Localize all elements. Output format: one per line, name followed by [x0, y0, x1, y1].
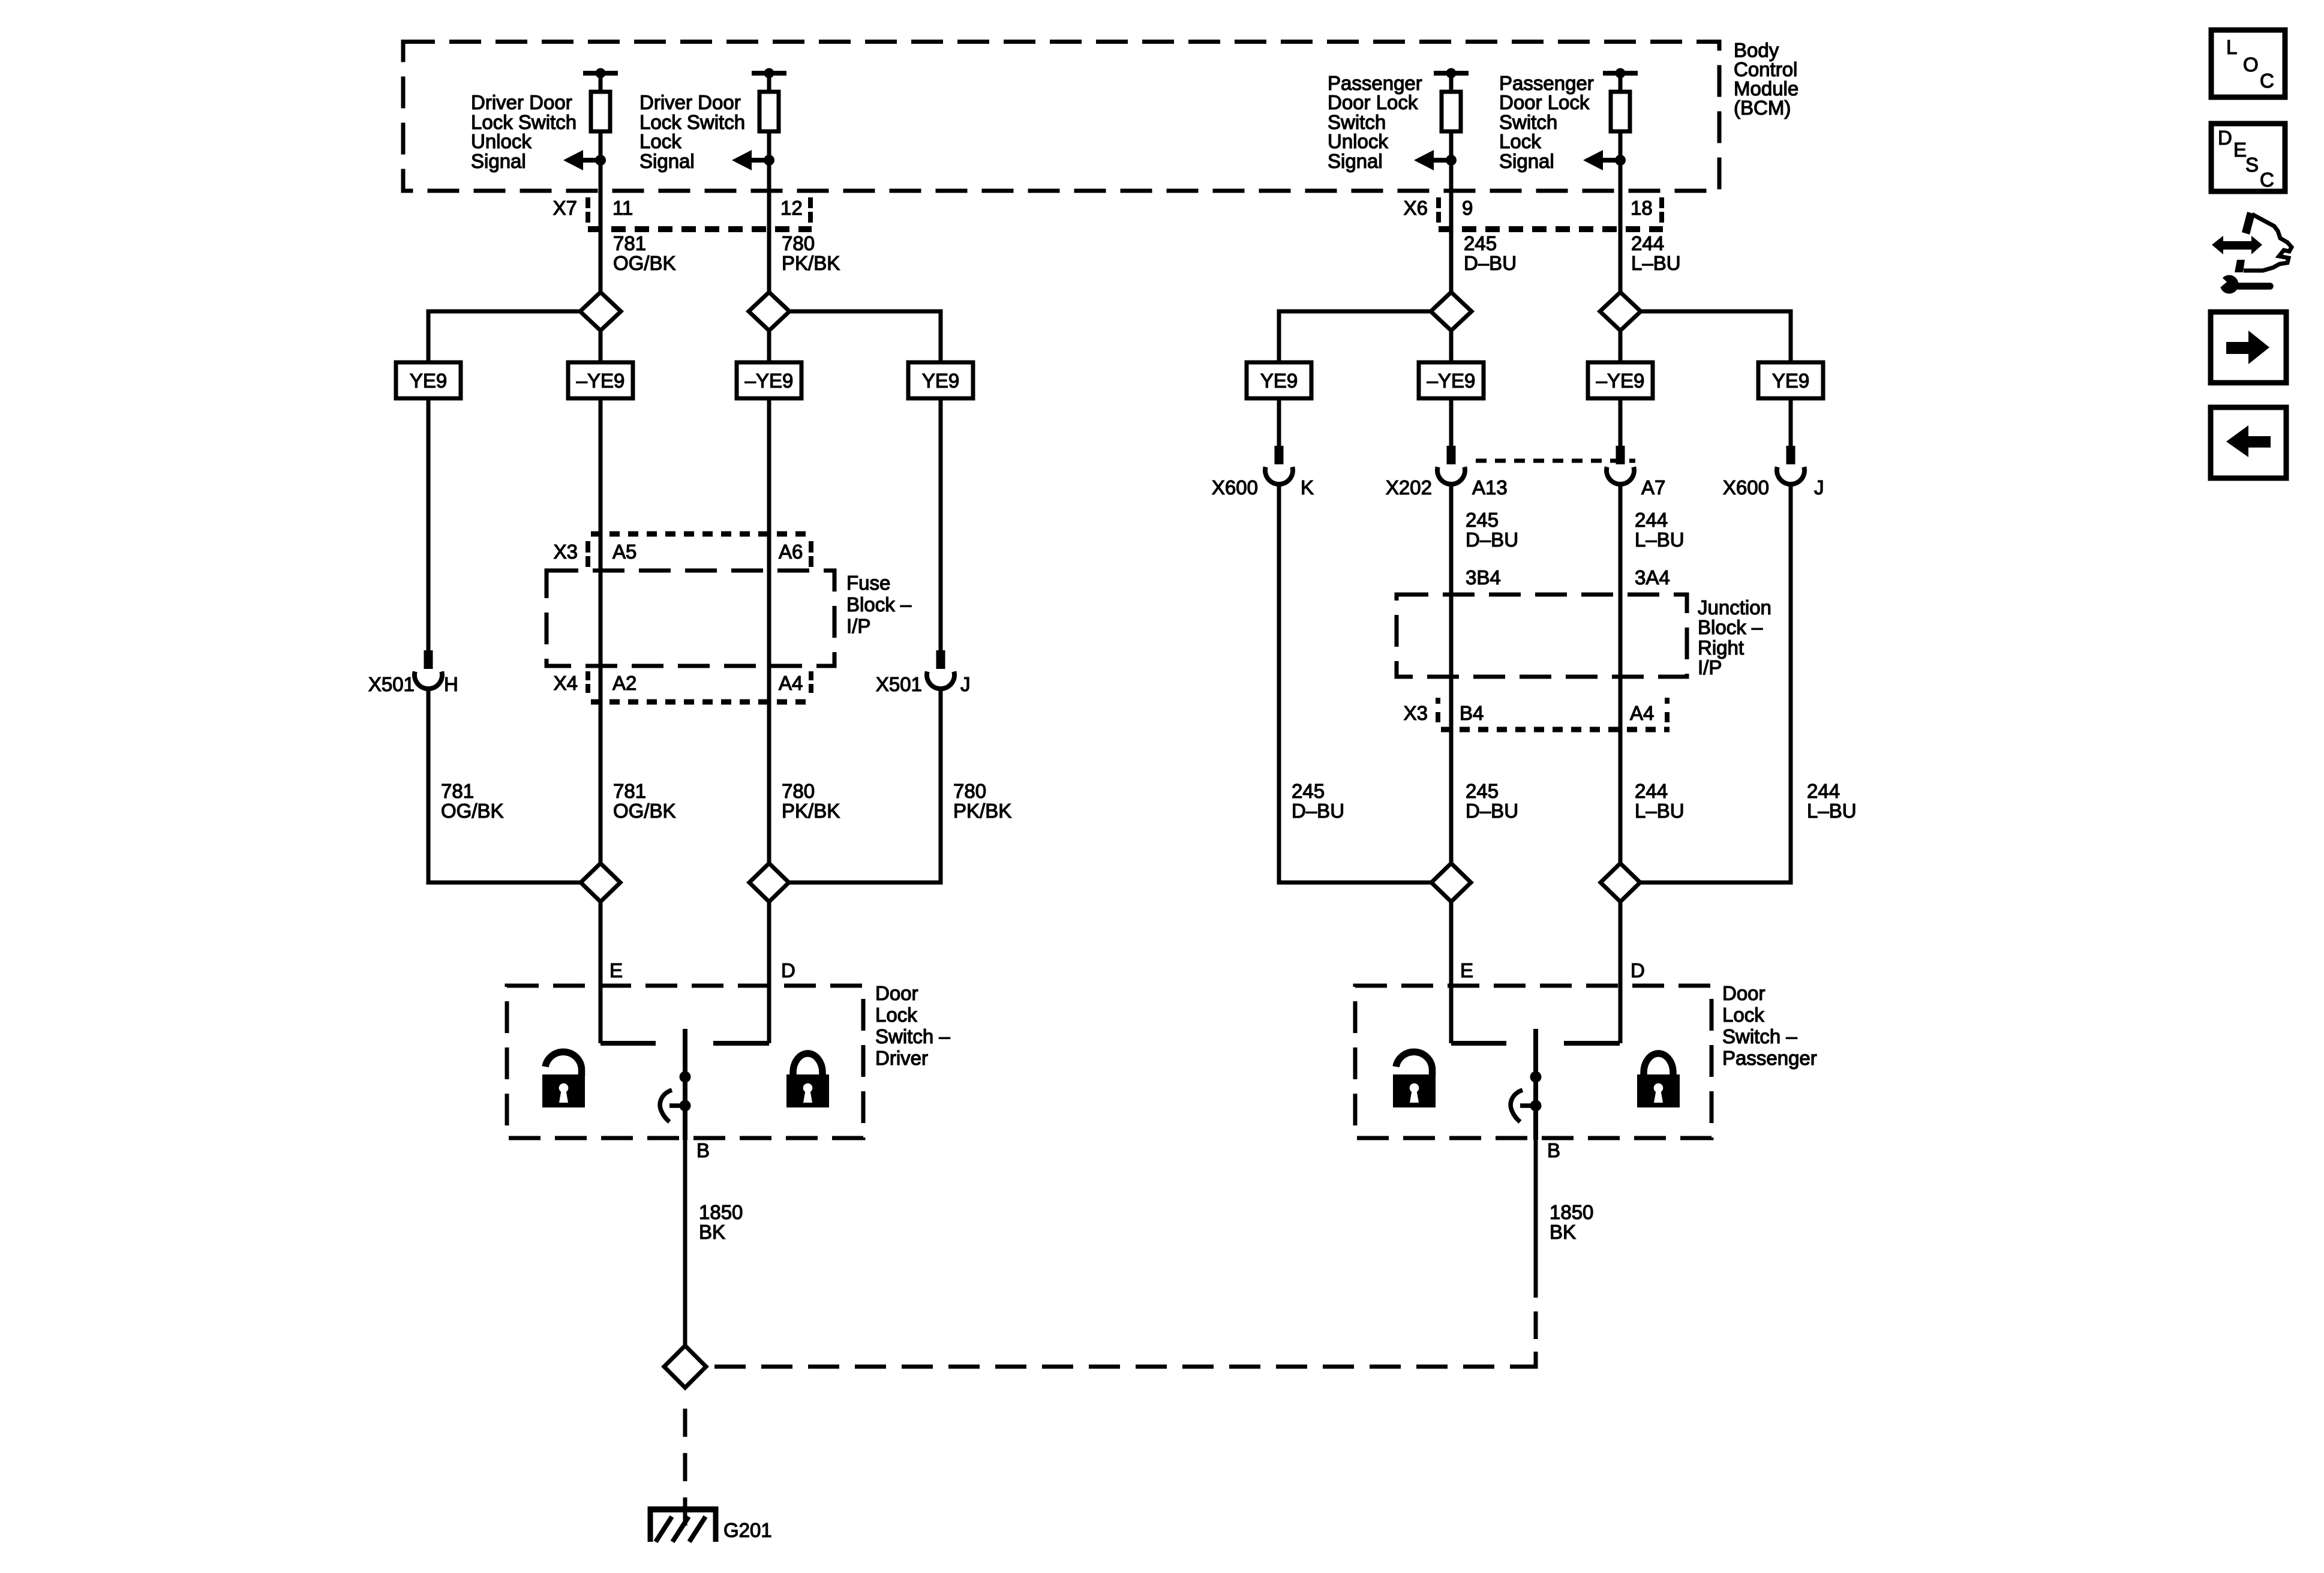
- svg-text:Driver Door: Driver Door: [471, 91, 572, 113]
- wire label 1850 BK (passenger): [1550, 1201, 1593, 1243]
- pin label B driver: [696, 1139, 710, 1161]
- svg-text:E: E: [609, 959, 623, 981]
- splice S8 (244): [1601, 863, 1640, 902]
- signal arrow driver unlock: [563, 150, 606, 170]
- svg-text:781: 781: [441, 780, 474, 802]
- unlock icon (open padlock) Driver: [542, 1052, 585, 1107]
- wire label 781 OG/BK (pin 11): [613, 232, 676, 274]
- wire S3 down: [1449, 331, 1454, 362]
- svg-text:J: J: [960, 673, 971, 695]
- svg-text:3B4: 3B4: [1466, 566, 1501, 589]
- wire label 1850 BK (driver): [699, 1201, 743, 1243]
- svg-text:Door: Door: [1722, 982, 1765, 1004]
- lock icon (closed padlock) Passenger: [1637, 1053, 1680, 1107]
- svg-text:245: 245: [1292, 780, 1325, 802]
- wire label 780 PK/BK (pin 12): [782, 232, 840, 274]
- svg-text:Right: Right: [1698, 637, 1744, 659]
- Door Lock Switch - Passenger dashed box: [1355, 986, 1712, 1138]
- svg-text:1850: 1850: [1550, 1201, 1593, 1223]
- wire S8 (244) down to switch: [1619, 902, 1623, 1043]
- dashed corner passenger 1850: [1520, 1352, 1536, 1367]
- ground label G201: [723, 1519, 772, 1541]
- harness box -YE9 at x=2701: [1588, 362, 1653, 398]
- svg-text:L: L: [2226, 36, 2237, 58]
- dotted link X202: [1476, 459, 1635, 463]
- svg-text:780: 780: [953, 780, 986, 802]
- svg-text:X501: X501: [368, 673, 415, 695]
- wire B passenger dashed segment: [1534, 1311, 1538, 1339]
- icon harness repair (wrench): [2209, 269, 2270, 294]
- svg-text:(BCM): (BCM): [1734, 97, 1791, 119]
- svg-text:781: 781: [613, 780, 646, 802]
- svg-text:X600: X600: [1212, 476, 1258, 499]
- svg-text:245: 245: [1466, 509, 1499, 531]
- svg-text:YE9: YE9: [1772, 370, 1809, 392]
- wire branch S1 to left: [428, 311, 580, 362]
- svg-text:3A4: 3A4: [1635, 566, 1670, 589]
- svg-text:X202: X202: [1386, 476, 1432, 499]
- splice S3 (245): [1431, 292, 1472, 331]
- wire dL below X501 H: [428, 689, 580, 882]
- wire S4 down: [1619, 331, 1623, 362]
- svg-text:OG/BK: OG/BK: [441, 800, 504, 822]
- svg-text:K: K: [1301, 476, 1314, 499]
- svg-text:780: 780: [782, 232, 815, 254]
- wire S5 (781) down to switch: [599, 902, 603, 1043]
- wire S2 down: [767, 331, 771, 362]
- svg-text:Lock: Lock: [639, 130, 681, 152]
- icon harness repair (double arrow): [2212, 236, 2262, 254]
- svg-text:245: 245: [1464, 232, 1497, 254]
- connector X7: [553, 197, 812, 229]
- splice S1 (781): [580, 292, 621, 331]
- wire label 245 D-BU (A13): [1466, 509, 1518, 551]
- switch contact D Driver: [713, 1041, 769, 1046]
- svg-text:9: 9: [1462, 197, 1473, 219]
- svg-text:Unlock: Unlock: [471, 130, 532, 152]
- splice S5 (781): [581, 863, 620, 902]
- wire driver lock output: [767, 131, 771, 293]
- harness box YE9 at x=1568: [908, 362, 973, 398]
- harness box -YE9 at x=1282: [737, 362, 801, 398]
- svg-text:Driver: Driver: [875, 1047, 928, 1069]
- signal arrow passenger lock: [1583, 150, 1626, 170]
- wire branch S3 to left: [1279, 311, 1431, 362]
- svg-text:1850: 1850: [699, 1201, 743, 1223]
- BCM internal node bar passenger lock: [1603, 68, 1638, 79]
- connector X202 pin A7: [1607, 446, 1665, 499]
- connector X600 pin J: [1723, 446, 1824, 499]
- signal arrow driver lock: [732, 150, 774, 170]
- wire pL YE9 to X600 K: [1277, 398, 1281, 446]
- svg-text:11: 11: [612, 197, 633, 219]
- wire S6 (780) down to switch: [767, 902, 771, 1043]
- Door Lock Switch Passenger label: [1722, 982, 1817, 1069]
- switch contact E Passenger: [1451, 1041, 1506, 1046]
- svg-text:–YE9: –YE9: [1596, 370, 1645, 392]
- svg-text:L–BU: L–BU: [1631, 252, 1681, 274]
- wire passenger unlock output: [1449, 131, 1454, 293]
- wire p2 YE9 to X202 A7: [1619, 398, 1623, 446]
- svg-text:J: J: [1814, 476, 1824, 499]
- svg-text:A7: A7: [1641, 476, 1665, 499]
- svg-text:A4: A4: [779, 672, 803, 694]
- label Driver Door Lock Switch Lock Signal: [639, 91, 745, 172]
- Body Control Module (BCM) dashed box: [403, 42, 1719, 191]
- wire p1 below X202 A13: [1449, 484, 1454, 863]
- switch common pole Driver: [680, 1029, 691, 1140]
- splice S7 (245): [1431, 863, 1471, 902]
- svg-text:–YE9: –YE9: [1427, 370, 1476, 392]
- wire dR YE9 to X501 J: [939, 398, 943, 650]
- pin label E driver: [609, 959, 623, 981]
- wire label 244 L-BU (pin 18): [1631, 232, 1681, 274]
- svg-text:L–BU: L–BU: [1635, 529, 1685, 551]
- wire driver unlock output: [599, 131, 603, 293]
- signal arrow passenger unlock: [1414, 150, 1457, 170]
- connector X6: [1404, 197, 1663, 229]
- pin label 3B4: [1466, 566, 1501, 589]
- svg-text:X501: X501: [876, 673, 922, 695]
- svg-text:I/P: I/P: [1698, 656, 1722, 679]
- svg-text:PK/BK: PK/BK: [953, 800, 1011, 822]
- resistor passenger unlock driver stage: [1442, 73, 1461, 131]
- pin label 3A4: [1635, 566, 1670, 589]
- svg-text:Signal: Signal: [1328, 150, 1383, 172]
- wire d2 YE9 down through fuse block: [767, 398, 771, 863]
- svg-text:D–BU: D–BU: [1466, 800, 1518, 822]
- harness box -YE9 at x=2419: [1419, 362, 1484, 398]
- splice S6 (780): [749, 863, 789, 902]
- svg-text:A4: A4: [1630, 702, 1654, 724]
- svg-text:G201: G201: [723, 1519, 772, 1541]
- svg-text:D: D: [781, 959, 795, 981]
- connector X3 fuse block pins A5 A6: [554, 534, 813, 567]
- harness box -YE9 at x=1001: [568, 362, 633, 398]
- harness box YE9 at x=2985: [1758, 362, 1823, 398]
- dashed wire 1850 passenger to splice: [714, 1365, 1520, 1369]
- icon LOC box: [2211, 30, 2285, 97]
- svg-text:Unlock: Unlock: [1328, 130, 1388, 152]
- svg-text:PK/BK: PK/BK: [782, 252, 840, 274]
- pin label D driver: [781, 959, 795, 981]
- svg-text:X6: X6: [1404, 197, 1428, 219]
- svg-text:244: 244: [1807, 780, 1840, 802]
- svg-text:BK: BK: [699, 1221, 725, 1243]
- svg-text:D–BU: D–BU: [1292, 800, 1344, 822]
- wire pR YE9 to X600 J: [1789, 398, 1793, 446]
- connector X501 pin H: [368, 650, 458, 695]
- svg-text:O: O: [2243, 53, 2259, 76]
- harness box YE9 at x=2132: [1247, 362, 1311, 398]
- wire B driver down: [683, 1140, 687, 1346]
- wire dL YE9 to X501 H: [427, 398, 431, 650]
- svg-text:D–BU: D–BU: [1464, 252, 1517, 274]
- ground G201 symbol: [648, 1506, 718, 1542]
- wire label 244 L-BU (A7): [1635, 509, 1685, 551]
- wire p1 YE9 to X202 A13: [1449, 398, 1454, 446]
- svg-text:245: 245: [1466, 780, 1499, 802]
- wire p2 below X202 A7: [1619, 484, 1623, 863]
- svg-text:244: 244: [1635, 780, 1668, 802]
- svg-text:Signal: Signal: [639, 150, 695, 172]
- svg-text:X600: X600: [1723, 476, 1769, 499]
- icon DESC box: [2211, 124, 2285, 191]
- dashed wire splice to ground: [683, 1409, 687, 1526]
- harness box YE9 at x=714: [396, 362, 461, 398]
- wire label 780 PK/BK (right): [953, 780, 1011, 822]
- svg-text:18: 18: [1631, 197, 1653, 219]
- switch contact E Driver: [600, 1041, 656, 1046]
- svg-text:Switch –: Switch –: [875, 1025, 950, 1047]
- label Passenger Door Lock Switch Unlock Signal: [1328, 72, 1422, 172]
- wire B passenger down: [1534, 1138, 1538, 1298]
- svg-text:Passenger: Passenger: [1722, 1047, 1817, 1069]
- connector X600 pin K: [1212, 446, 1314, 499]
- svg-text:L–BU: L–BU: [1807, 800, 1857, 822]
- svg-text:D–BU: D–BU: [1466, 529, 1518, 551]
- svg-text:Lock: Lock: [1722, 1004, 1764, 1026]
- svg-text:Door Lock: Door Lock: [1328, 91, 1418, 113]
- svg-text:D: D: [2218, 127, 2232, 149]
- Door Lock Switch - Driver dashed box: [507, 986, 863, 1138]
- svg-text:E: E: [1460, 959, 1473, 981]
- svg-text:X4: X4: [554, 672, 578, 694]
- BCM internal node bar driver lock: [752, 68, 786, 79]
- switch lever Driver: [660, 1090, 685, 1122]
- svg-text:YE9: YE9: [1260, 370, 1298, 392]
- splice S2 (780): [749, 292, 789, 331]
- svg-text:B: B: [696, 1139, 710, 1161]
- switch contact D Passenger: [1564, 1041, 1620, 1046]
- icon forward arrow box: [2211, 312, 2286, 383]
- svg-text:Fuse: Fuse: [846, 572, 890, 594]
- BCM internal node bar driver unlock: [583, 68, 618, 79]
- svg-text:A2: A2: [612, 672, 636, 694]
- wire S7 (245) down to switch: [1449, 902, 1454, 1043]
- wire dR below X501 J: [789, 689, 941, 882]
- svg-text:12: 12: [780, 197, 803, 219]
- pin label B passenger: [1547, 1139, 1560, 1161]
- wire label 244 L-BU (A4): [1635, 780, 1685, 822]
- svg-text:Junction: Junction: [1698, 596, 1771, 619]
- svg-text:YE9: YE9: [410, 370, 447, 392]
- svg-text:–YE9: –YE9: [577, 370, 625, 392]
- wire passenger lock output: [1619, 131, 1623, 293]
- svg-text:B4: B4: [1460, 702, 1484, 724]
- svg-text:YE9: YE9: [922, 370, 959, 392]
- wire pR below X600 J: [1641, 484, 1791, 882]
- wire branch S2 to right: [789, 311, 941, 362]
- wire label 781 OG/BK (A2): [613, 780, 676, 822]
- wire label 244 L-BU (far right): [1807, 780, 1857, 822]
- svg-text:B: B: [1547, 1139, 1560, 1161]
- svg-text:244: 244: [1635, 509, 1668, 531]
- wire label 245 D-BU (B4): [1466, 780, 1518, 822]
- Fuse Block label: [846, 572, 912, 637]
- BCM label: [1734, 39, 1798, 119]
- svg-text:S: S: [2245, 154, 2259, 176]
- svg-text:H: H: [444, 673, 458, 695]
- svg-text:Signal: Signal: [471, 150, 526, 172]
- svg-text:C: C: [2260, 169, 2274, 191]
- svg-text:Switch –: Switch –: [1722, 1025, 1797, 1047]
- switch common pole Passenger: [1530, 1029, 1542, 1140]
- wire label 245 D-BU (far left): [1292, 780, 1344, 822]
- switch lever Passenger: [1511, 1090, 1536, 1122]
- Junction Block label: [1698, 596, 1771, 679]
- label Driver Door Lock Switch Unlock Signal: [471, 91, 577, 172]
- pin label E passenger: [1460, 959, 1473, 981]
- svg-text:OG/BK: OG/BK: [613, 252, 676, 274]
- resistor driver lock driver stage: [759, 73, 779, 131]
- lock icon (closed padlock) Driver: [786, 1053, 829, 1107]
- resistor driver unlock driver stage: [591, 73, 610, 131]
- icon back arrow box: [2211, 407, 2286, 478]
- svg-text:X3: X3: [1404, 702, 1428, 724]
- svg-text:L–BU: L–BU: [1635, 800, 1685, 822]
- connector X202 pin A13: [1386, 446, 1508, 499]
- Door Lock Switch Driver label: [875, 982, 950, 1069]
- Fuse Block - I/P dashed box: [547, 571, 834, 666]
- svg-text:I/P: I/P: [846, 615, 870, 637]
- wire pL below X600 K: [1279, 484, 1431, 882]
- svg-text:A6: A6: [779, 541, 803, 563]
- svg-text:X7: X7: [553, 197, 577, 219]
- label Passenger Door Lock Switch Lock Signal: [1499, 72, 1594, 172]
- wire d1 YE9 down through fuse block: [599, 398, 603, 863]
- svg-text:781: 781: [613, 232, 646, 254]
- wire label 781 OG/BK (left): [441, 780, 504, 822]
- svg-text:C: C: [2260, 70, 2274, 92]
- svg-text:Driver Door: Driver Door: [639, 91, 741, 113]
- svg-text:Door: Door: [875, 982, 918, 1004]
- svg-text:Block –: Block –: [846, 593, 912, 616]
- wire label 245 D-BU (pin 9): [1464, 232, 1517, 274]
- svg-text:Door Lock: Door Lock: [1499, 91, 1590, 113]
- svg-text:D: D: [1631, 959, 1645, 981]
- svg-text:A5: A5: [612, 541, 636, 563]
- svg-text:244: 244: [1631, 232, 1664, 254]
- splice S9 (1850): [664, 1346, 706, 1388]
- svg-text:A13: A13: [1472, 476, 1508, 499]
- connector X3 junction block pins B4 A4: [1404, 698, 1670, 730]
- Junction Block - Right I/P dashed box: [1397, 595, 1687, 677]
- svg-text:E: E: [2233, 139, 2247, 161]
- svg-text:Block –: Block –: [1698, 616, 1763, 638]
- connector X501 pin J: [876, 650, 971, 695]
- svg-text:–YE9: –YE9: [745, 370, 794, 392]
- svg-text:Lock: Lock: [1499, 130, 1541, 152]
- svg-text:BK: BK: [1550, 1221, 1576, 1243]
- wire S1 down: [599, 331, 603, 362]
- svg-text:X3: X3: [554, 541, 578, 563]
- svg-text:Lock: Lock: [875, 1004, 917, 1026]
- icon harness repair (connector face outline): [2235, 212, 2292, 272]
- svg-text:Signal: Signal: [1499, 150, 1554, 172]
- BCM internal node bar passenger unlock: [1434, 68, 1469, 79]
- wire label 780 PK/BK (A4): [782, 780, 840, 822]
- svg-text:OG/BK: OG/BK: [613, 800, 676, 822]
- svg-text:PK/BK: PK/BK: [782, 800, 840, 822]
- connector X4 fuse block pins A2 A4: [554, 671, 813, 702]
- resistor passenger lock driver stage: [1611, 73, 1630, 131]
- wire branch S4 to right: [1641, 311, 1791, 362]
- splice S4 (244): [1600, 292, 1641, 331]
- svg-text:780: 780: [782, 780, 815, 802]
- pin label D passenger: [1631, 959, 1645, 981]
- unlock icon (open padlock) Passenger: [1393, 1052, 1436, 1107]
